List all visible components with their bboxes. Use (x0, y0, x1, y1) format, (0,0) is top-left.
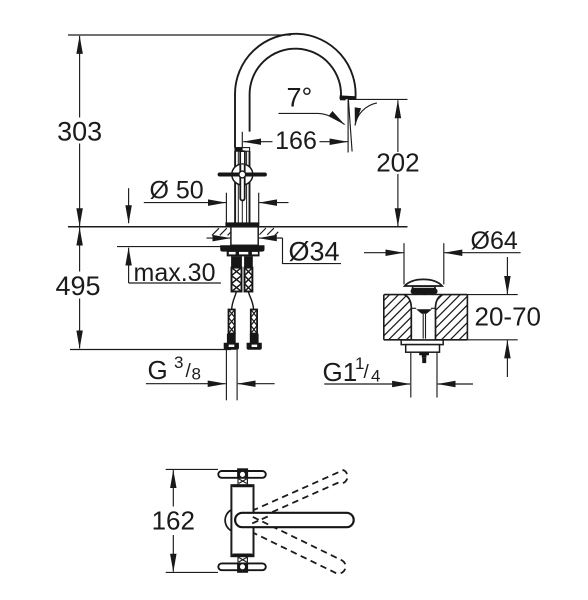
dim 20-70 top extension (467, 294, 517, 296)
body rect (231, 485, 253, 556)
braided hose left (232, 268, 242, 292)
svg-text:Ø64: Ø64 (471, 227, 518, 255)
countertop hatched section outline (384, 295, 468, 340)
dim D64 left extension (403, 243, 405, 284)
bottom extension line (hose ends) (70, 349, 231, 351)
drain cap neck (412, 286, 435, 288)
dim 202 lower arrow (397, 174, 399, 226)
connector left (229, 310, 235, 334)
valve body inner line right (246, 151, 248, 223)
dim max30 bottom arrow (128, 248, 130, 283)
body top dark band (232, 484, 252, 487)
hatch lines (384, 295, 468, 340)
svg-text:495: 495 (55, 271, 100, 301)
dim D34 left arrow (207, 237, 231, 239)
top ext line (166, 468, 218, 470)
7 degree vertical extension (347, 100, 349, 153)
drain stem (423, 314, 425, 339)
svg-text:G1: G1 (323, 357, 358, 387)
svg-text:166: 166 (275, 127, 317, 155)
top extension line (68, 34, 291, 36)
svg-text:303: 303 (57, 117, 102, 147)
bell nut (220, 245, 264, 251)
outlet lip (340, 98, 346, 100)
dim 166 right arrow (320, 141, 348, 143)
hatch left of shank (212, 228, 231, 235)
center line below stem (241, 200, 243, 223)
valve body inner line left (237, 151, 239, 223)
dim 20-70 bottom arrow (506, 340, 508, 377)
top handle bar (218, 471, 265, 478)
connector right (251, 310, 257, 334)
spout outer contour (235, 34, 356, 148)
end fitting left (224, 334, 239, 350)
dim 495 line lower w/ arrow (79, 299, 81, 349)
dim 20-70 top arrow (506, 257, 508, 294)
dim 202 upper arrow (397, 100, 399, 152)
flange washer (401, 340, 443, 345)
top handle center block (237, 468, 248, 478)
mounting shank (231, 227, 258, 246)
tail pipe right (436, 352, 438, 397)
D34 leader step (283, 238, 342, 264)
svg-text:max.30: max.30 (134, 259, 216, 287)
max30 label underline (129, 282, 221, 284)
dim 303 line lower w/ arrow (79, 144, 81, 227)
white hole interior (405, 295, 443, 339)
dim D50 right arrow (259, 202, 288, 204)
valve body left line (234, 151, 236, 223)
set screw pin (422, 358, 426, 363)
drain cap dome (405, 279, 442, 286)
lock nut (406, 345, 440, 353)
neck bottom (238, 556, 247, 563)
dim G1 1/4 right arrow (438, 383, 473, 385)
dim 162 lower arrow (172, 535, 174, 572)
bottom handle center block (237, 563, 248, 573)
dim D34 right arrow w/ leader (259, 237, 283, 239)
hose stub right (244, 256, 253, 267)
drain funnel walls (405, 295, 443, 340)
svg-text:162: 162 (152, 506, 195, 536)
dim 303 line upper w/ arrow (79, 36, 81, 118)
lower dashed swivel spout (246, 516, 346, 573)
dim D50 left extension (225, 193, 227, 225)
dim D50 left arrow (144, 202, 226, 204)
dim max30 lower extension line (117, 246, 256, 248)
dashes crossing spout interior upper-edge (252, 517, 268, 524)
dim 20-70 bottom extension (467, 339, 517, 341)
hose tail right (248, 292, 253, 310)
dim 202 top extension line (348, 98, 408, 100)
handle cross bar (220, 173, 265, 177)
svg-text:Ø 50: Ø 50 (150, 177, 204, 205)
handle stem through circle (240, 165, 244, 201)
escutcheon top band dark left (235, 147, 243, 151)
svg-text:7°: 7° (287, 83, 313, 113)
dim 166 extension at pipe center (241, 132, 243, 149)
dim G3/8 right arrow (238, 383, 275, 385)
dim D64 right extension (443, 243, 445, 284)
dim G3/8 left arrow (146, 383, 226, 385)
top handle hub circle (239, 471, 245, 477)
svg-text:G: G (148, 355, 168, 385)
braided hose right (245, 268, 253, 292)
7 degree angle arc w/ arrow (355, 103, 377, 126)
base plate (225, 222, 259, 226)
svg-text:Ø34: Ø34 (289, 237, 340, 267)
svg-text:3: 3 (174, 353, 183, 372)
seat rim ticks (411, 307, 435, 309)
escutcheon top band outline (235, 148, 250, 152)
valve seat dark wedge (416, 309, 432, 314)
svg-text:/: / (364, 362, 370, 383)
countertop reference line (68, 226, 408, 228)
fitting white dash right (252, 345, 258, 347)
hose stub left (231, 256, 242, 267)
7 degree leader underline and arrow (279, 113, 345, 124)
bottom handle bar (218, 563, 265, 570)
bottom ext line (166, 571, 218, 573)
7 degree slanted line (348, 100, 352, 152)
drain cap o-ring (411, 289, 438, 294)
set screw steps (419, 352, 429, 358)
dim 495 line upper w/ arrow (79, 228, 81, 272)
fitting white dash left (229, 345, 235, 347)
dim D64 right arrow (444, 252, 520, 254)
dim D50 right extension (258, 193, 260, 225)
handle hub white circle (239, 171, 246, 178)
pivot bump arc (225, 510, 231, 531)
supply pipe left line (225, 350, 227, 401)
bottom handle hub circle (239, 564, 245, 570)
bell nut white dashes (229, 252, 236, 255)
dim max30 top arrow (128, 188, 130, 223)
solid spout stadium (235, 513, 354, 527)
dim 162 upper arrow (172, 470, 174, 506)
svg-text:20-70: 20-70 (475, 302, 542, 332)
spout outlet face (340, 95, 356, 99)
bell nut lower band (227, 251, 260, 256)
svg-text:8: 8 (192, 365, 201, 384)
hose tail left (232, 292, 237, 310)
handle circle (232, 164, 253, 185)
body bottom dark band (232, 554, 252, 557)
dim 166 left arrow (243, 141, 272, 143)
dim D64 left arrow (364, 252, 404, 254)
upper dashed swivel spout (246, 470, 347, 523)
hatch right of shank (260, 228, 279, 235)
end fitting right (247, 334, 262, 350)
spout inner contour (250, 49, 341, 132)
svg-text:4: 4 (371, 367, 380, 386)
dim G1 1/4 left arrow (324, 383, 410, 385)
valve body right line (249, 151, 251, 223)
supply pipe right line (236, 350, 238, 401)
svg-text:202: 202 (376, 148, 419, 178)
neck top (238, 478, 247, 485)
dashes crossing spout interior lower-edge (253, 517, 268, 525)
handle stem upper dark (240, 151, 245, 165)
tail pipe left (410, 352, 412, 397)
